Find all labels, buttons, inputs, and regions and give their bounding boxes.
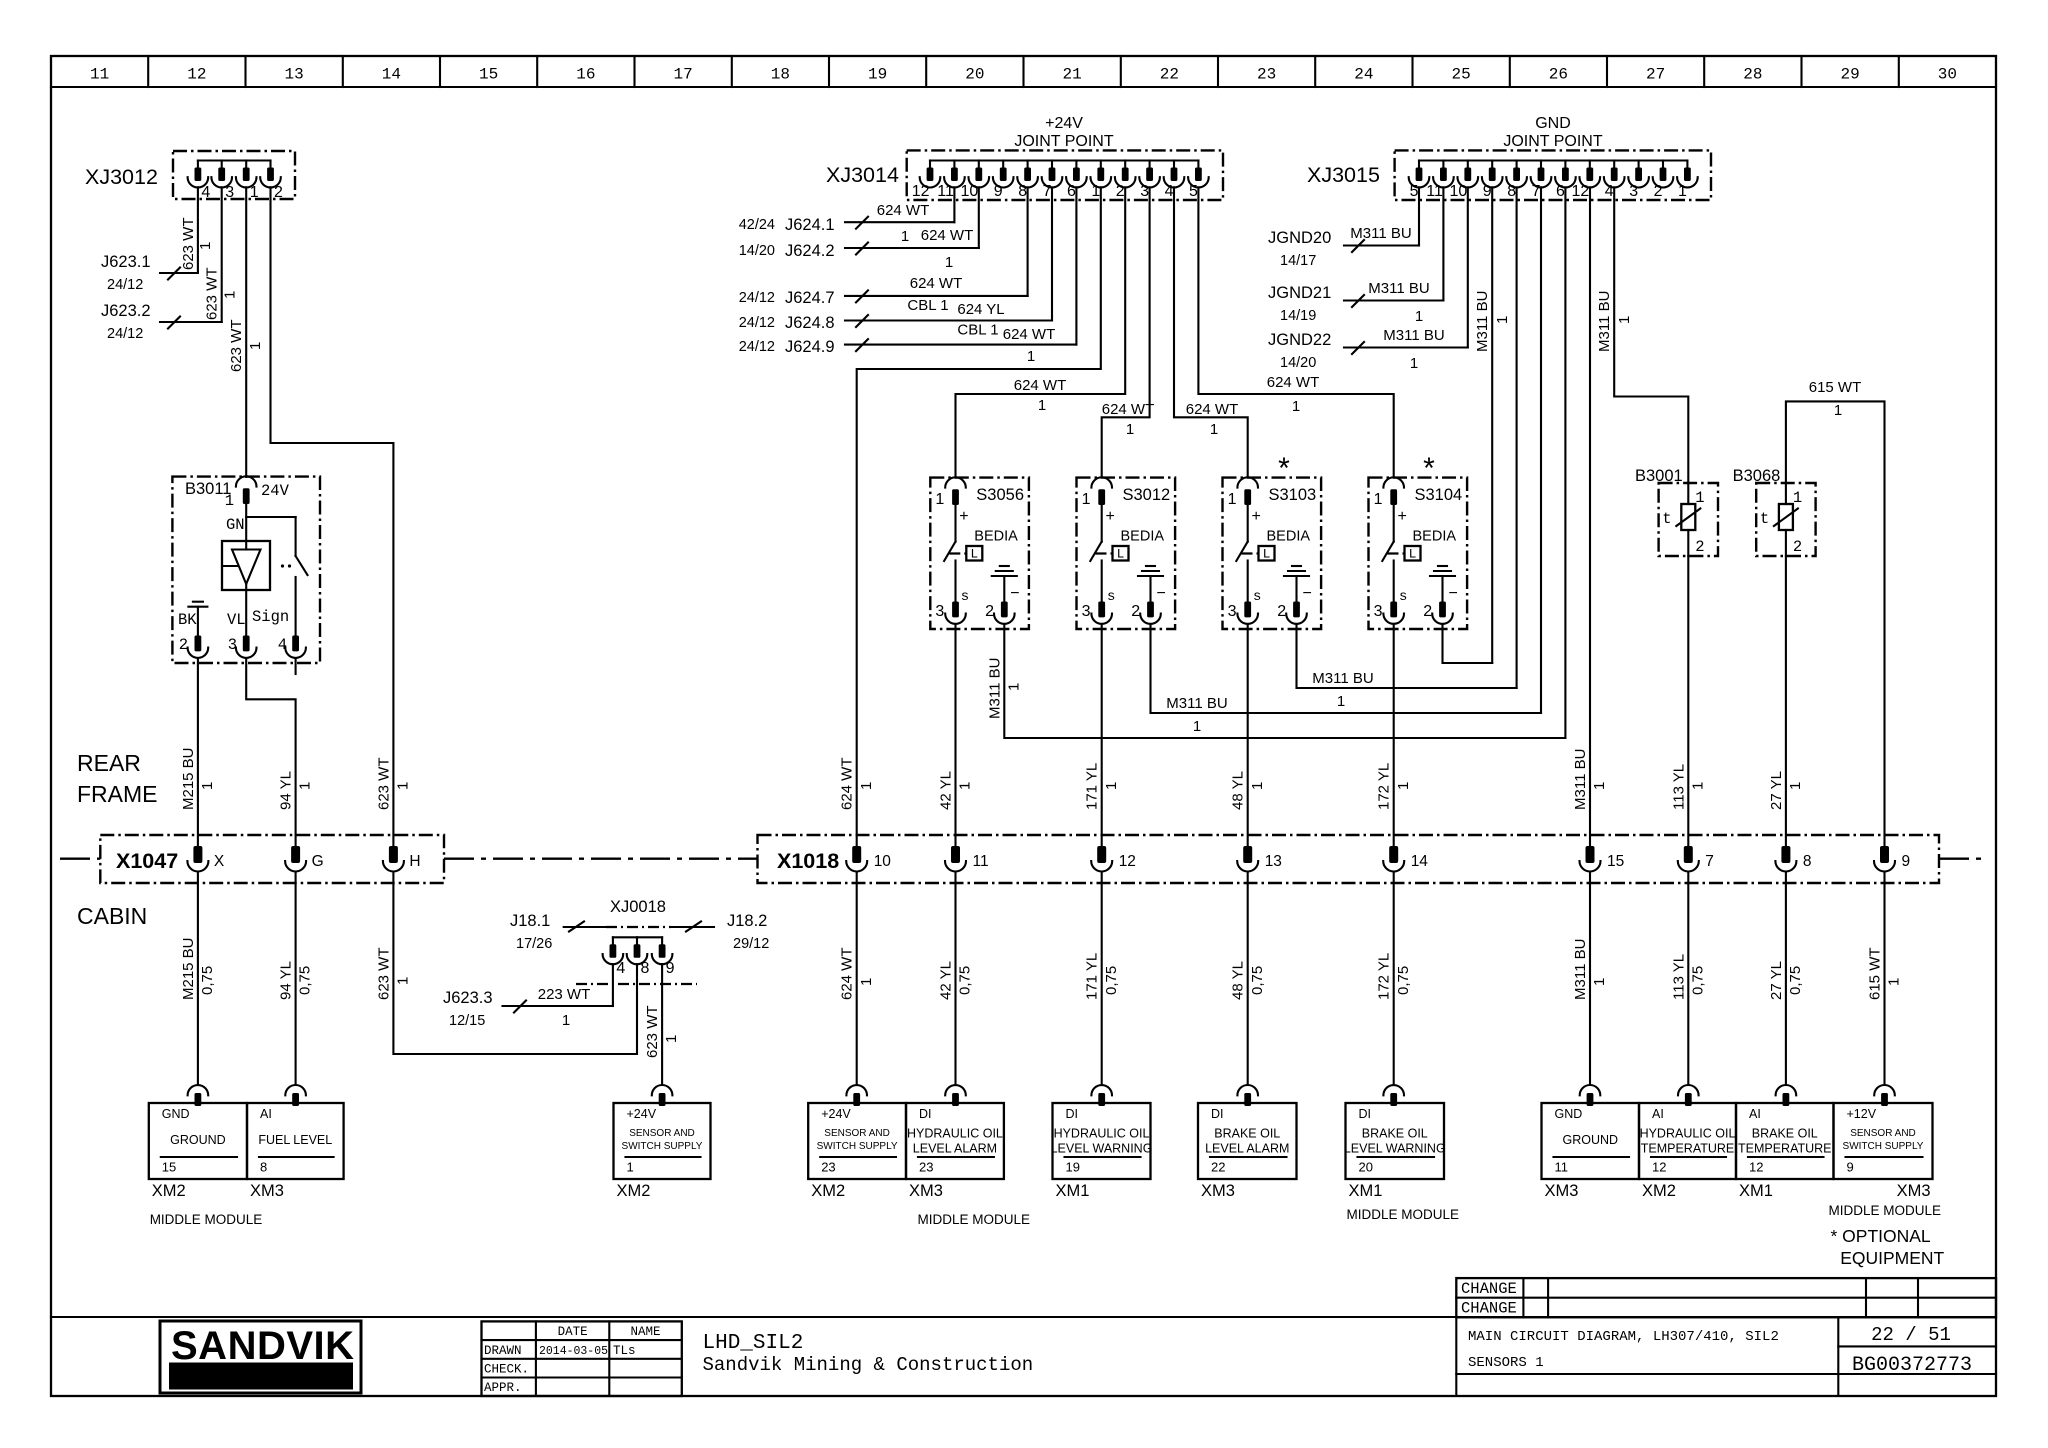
- svg-text:17: 17: [673, 66, 692, 84]
- wire M215 BU from B3011 pin 2 to X1047 pin X: [180, 659, 216, 846]
- wire M311 BU from XJ3015 pin 4 to B3001 pin 1: [1596, 187, 1688, 483]
- svg-text:14: 14: [1411, 853, 1429, 870]
- svg-text:3: 3: [1374, 603, 1383, 620]
- module output +12V SENSOR AND SWITCH SUPPLY 9 XM3: [1834, 1085, 1933, 1200]
- svg-text:L: L: [1263, 547, 1271, 562]
- svg-text:14/17: 14/17: [1280, 253, 1316, 269]
- svg-text:S3103: S3103: [1269, 486, 1317, 504]
- svg-text:SANDVIK: SANDVIK: [171, 1324, 355, 1368]
- svg-text:113 YL: 113 YL: [1670, 764, 1687, 810]
- svg-text:9: 9: [666, 960, 675, 977]
- document number BG00372773: [1852, 1354, 1972, 1377]
- wire 623 WT from XJ3012 pin 2 to X1047 pin H: [271, 187, 394, 846]
- svg-text:1: 1: [1374, 491, 1383, 508]
- svg-text:M311 BU: M311 BU: [1474, 291, 1491, 352]
- svg-text:0,75: 0,75: [1103, 966, 1120, 995]
- svg-text:X: X: [214, 853, 225, 870]
- svg-text:1: 1: [1210, 421, 1218, 438]
- svg-text:SWITCH SUPPLY: SWITCH SUPPLY: [817, 1141, 898, 1152]
- temperature sensor B3068 brake oil: [1733, 467, 1816, 556]
- svg-text:8: 8: [641, 960, 650, 977]
- svg-text:15: 15: [479, 66, 498, 84]
- svg-text:+: +: [959, 508, 968, 525]
- svg-text:LHD_SIL2: LHD_SIL2: [703, 1332, 804, 1355]
- svg-text:23: 23: [1257, 66, 1276, 84]
- svg-text:15: 15: [162, 1160, 176, 1175]
- label J18.1 17/26: [510, 912, 552, 952]
- svg-text:9: 9: [994, 183, 1003, 200]
- svg-text:s: s: [1253, 589, 1261, 605]
- svg-text:GND: GND: [162, 1107, 190, 1121]
- svg-text:−: −: [1303, 585, 1312, 602]
- svg-text:22 / 51: 22 / 51: [1871, 1324, 1951, 1346]
- svg-text:HYDRAULIC OIL: HYDRAULIC OIL: [1640, 1127, 1736, 1141]
- svg-text:21: 21: [1062, 66, 1081, 84]
- svg-text:624 YL: 624 YL: [957, 301, 1004, 318]
- svg-text:3: 3: [1228, 603, 1237, 620]
- wire M215 BU from X1047 pin X to XM2 ground: [180, 872, 216, 1085]
- svg-text:M311 BU: M311 BU: [1166, 695, 1227, 712]
- svg-text:1: 1: [858, 782, 875, 790]
- svg-text:23: 23: [821, 1160, 835, 1175]
- svg-text:M311 BU: M311 BU: [1383, 327, 1444, 344]
- svg-text:623 WT: 623 WT: [180, 217, 197, 270]
- svg-text:1: 1: [901, 228, 909, 245]
- svg-text:624 WT: 624 WT: [1267, 374, 1320, 391]
- svg-text:1: 1: [1228, 491, 1237, 508]
- svg-text:s: s: [961, 589, 969, 605]
- label MIDDLE MODULE far right: [1829, 1203, 1942, 1218]
- svg-text:0,75: 0,75: [1395, 966, 1412, 995]
- svg-text:BG00372773: BG00372773: [1852, 1354, 1972, 1377]
- svg-text:28: 28: [1743, 66, 1762, 84]
- svg-text:XJ3012: XJ3012: [85, 165, 158, 189]
- svg-text:2: 2: [985, 603, 994, 620]
- wire M311 BU from XJ3015 pin 9 to S3104 pin 2: [1474, 187, 1511, 663]
- svg-text:9: 9: [1902, 853, 1911, 870]
- svg-text:94 YL: 94 YL: [278, 771, 295, 810]
- svg-text:BRAKE OIL: BRAKE OIL: [1752, 1127, 1818, 1141]
- svg-text:G: G: [312, 853, 324, 870]
- B3011 case ground symbol: [188, 602, 207, 637]
- svg-text:H: H: [409, 853, 420, 870]
- svg-text:20: 20: [965, 66, 984, 84]
- svg-text:0,75: 0,75: [297, 966, 314, 995]
- svg-text:GROUND: GROUND: [170, 1133, 226, 1147]
- svg-text:1: 1: [222, 291, 239, 299]
- svg-text:29/12: 29/12: [733, 936, 769, 952]
- label MIDDLE MODULE center: [918, 1212, 1031, 1227]
- svg-text:172 YL: 172 YL: [1376, 953, 1393, 1000]
- B3011 float switch: [246, 517, 307, 636]
- svg-text:13: 13: [1265, 853, 1282, 870]
- svg-text:42 YL: 42 YL: [938, 961, 955, 1000]
- svg-text:CBL 1: CBL 1: [957, 322, 998, 339]
- svg-text:3: 3: [1140, 183, 1149, 200]
- svg-text:48 YL: 48 YL: [1230, 961, 1247, 1000]
- svg-text:12: 12: [187, 66, 206, 84]
- svg-text:12/15: 12/15: [449, 1013, 485, 1029]
- svg-text:1: 1: [1249, 782, 1266, 790]
- svg-text:1: 1: [1193, 718, 1201, 735]
- svg-text:M215 BU: M215 BU: [180, 937, 197, 1000]
- svg-text:8: 8: [1507, 183, 1516, 200]
- svg-text:DATE: DATE: [558, 1325, 588, 1339]
- svg-text:24/12: 24/12: [739, 290, 775, 306]
- svg-text:615 WT: 615 WT: [1867, 947, 1884, 1000]
- svg-text:5: 5: [1410, 183, 1419, 200]
- column ruler 11-30: [90, 56, 1957, 87]
- svg-text:10: 10: [1450, 183, 1468, 200]
- svg-text:42/24: 42/24: [739, 217, 775, 233]
- svg-text:MIDDLE MODULE: MIDDLE MODULE: [918, 1212, 1031, 1227]
- svg-text:30: 30: [1938, 66, 1957, 84]
- svg-text:4: 4: [278, 636, 287, 654]
- wire XJ3014 pin 11 to J624.1: [953, 187, 955, 222]
- svg-text:J624.1: J624.1: [785, 216, 835, 234]
- svg-text:+24V: +24V: [821, 1107, 851, 1121]
- svg-text:1: 1: [1126, 421, 1134, 438]
- svg-text:1: 1: [935, 491, 944, 508]
- svg-text:X1018: X1018: [777, 849, 839, 873]
- svg-text:1: 1: [199, 782, 216, 790]
- svg-text:27: 27: [1646, 66, 1665, 84]
- svg-text:10: 10: [961, 183, 979, 200]
- wire 623 WT from J623.2 to XJ3012 pin 3: [204, 187, 239, 322]
- svg-text:19: 19: [1066, 1160, 1080, 1175]
- wire 623 WT from J623.1 to XJ3012 pin 4: [180, 187, 214, 273]
- svg-text:5: 5: [1189, 183, 1198, 200]
- signal entry J624.7 24/12: [739, 275, 1028, 314]
- svg-text:6: 6: [1067, 183, 1076, 200]
- wire M311 BU from X1018 pin 15 to XM3 ground: [1572, 872, 1608, 1085]
- svg-text:14/19: 14/19: [1280, 308, 1316, 324]
- svg-text:2: 2: [1423, 603, 1432, 620]
- approval table: [482, 1321, 682, 1396]
- svg-text:J18.1: J18.1: [510, 912, 550, 930]
- svg-text:11: 11: [1555, 1160, 1569, 1175]
- svg-text:REAR: REAR: [77, 750, 141, 776]
- svg-text:2: 2: [1277, 603, 1286, 620]
- svg-text:1: 1: [663, 1035, 680, 1043]
- svg-text:GN: GN: [226, 516, 245, 534]
- svg-text:12: 12: [1749, 1160, 1763, 1175]
- svg-text:XM3: XM3: [909, 1182, 943, 1200]
- svg-text:1: 1: [1793, 489, 1802, 507]
- svg-text:0,75: 0,75: [199, 966, 216, 995]
- wire M311 BU from XJ3015 pin 6 to S3056 pin 2: [1564, 187, 1566, 738]
- signal entry JGND20 14/17: [1268, 225, 1419, 269]
- svg-text:APPR.: APPR.: [484, 1381, 522, 1395]
- svg-text:1: 1: [1027, 348, 1035, 365]
- svg-text:1: 1: [1787, 782, 1804, 790]
- svg-text:1: 1: [1082, 491, 1091, 508]
- temperature sensor B3001 hydraulic oil: [1635, 467, 1718, 556]
- svg-text:LEVEL ALARM: LEVEL ALARM: [913, 1142, 997, 1156]
- svg-text:DI: DI: [1359, 1107, 1372, 1121]
- svg-text:FRAME: FRAME: [77, 781, 158, 807]
- wire 171 YL from S3012 pin 3 to X1018 pin 12: [1084, 624, 1120, 846]
- svg-text:DI: DI: [1211, 1107, 1224, 1121]
- svg-text:3: 3: [1082, 603, 1091, 620]
- svg-text:DRAWN: DRAWN: [484, 1344, 522, 1358]
- svg-text:L: L: [970, 547, 978, 562]
- svg-text:624 WT: 624 WT: [1014, 377, 1067, 394]
- svg-text:SENSOR AND: SENSOR AND: [824, 1128, 890, 1139]
- svg-text:24/12: 24/12: [739, 339, 775, 355]
- svg-text:19: 19: [868, 66, 887, 84]
- svg-text:1: 1: [1038, 397, 1046, 414]
- svg-text:22: 22: [1160, 66, 1179, 84]
- signal entry JGND21 14/19: [1268, 280, 1443, 325]
- wire M311 BU from XJ3015 pin 12 to X1018 pin 15: [1572, 187, 1608, 846]
- wire M311 BU from S3012 pin 2 to XJ3015 pin 7: [1151, 624, 1542, 735]
- svg-text:624 WT: 624 WT: [1186, 401, 1239, 418]
- svg-text:10: 10: [874, 853, 892, 870]
- wire 48 YL from S3103 pin 3 to X1018 pin 13: [1230, 624, 1266, 846]
- svg-text:0,75: 0,75: [1787, 966, 1804, 995]
- svg-text:4: 4: [1165, 183, 1174, 200]
- signal entry J623.3 12/15: [443, 986, 613, 1029]
- wire 615 WT from B3068 pin 1 to X1018 pin 9: [1786, 379, 1885, 846]
- svg-text:J624.7: J624.7: [785, 289, 835, 307]
- svg-text:24/12: 24/12: [739, 315, 775, 331]
- svg-text:24/12: 24/12: [107, 326, 143, 342]
- wire 27 YL from X1018 pin 8 to XM1 temperature: [1768, 872, 1804, 1085]
- module output +24V SENSOR AND SWITCH SUPPLY 1 XM2: [614, 1085, 711, 1200]
- svg-text:S3012: S3012: [1123, 486, 1171, 504]
- signal entry JGND22 14/20: [1268, 327, 1468, 372]
- svg-text:XJ3015: XJ3015: [1307, 163, 1380, 187]
- svg-text:SENSOR AND: SENSOR AND: [1850, 1128, 1916, 1139]
- wire 624 WT from XJ3014 pin 2 to S3056 pin 1: [956, 187, 1126, 477]
- svg-text:624 WT: 624 WT: [1003, 326, 1056, 343]
- svg-text:615 WT: 615 WT: [1809, 379, 1862, 396]
- wire XJ3015 pin 11 to JGND21: [1442, 187, 1444, 300]
- svg-text:24: 24: [1354, 66, 1373, 84]
- svg-text:1: 1: [1689, 782, 1706, 790]
- note OPTIONAL EQUIPMENT: [1831, 1226, 1945, 1268]
- svg-text:M311 BU: M311 BU: [986, 658, 1003, 719]
- svg-text:*: *: [1423, 452, 1435, 485]
- svg-text:29: 29: [1840, 66, 1859, 84]
- svg-text:−: −: [1157, 585, 1166, 602]
- svg-text:223 WT: 223 WT: [538, 986, 591, 1003]
- svg-text:CHECK.: CHECK.: [484, 1363, 529, 1377]
- wire 42 YL from S3056 pin 3 to X1018 pin 11: [938, 624, 974, 846]
- wire 624 WT from X1018 pin 10 to XM2 supply: [839, 872, 875, 1085]
- wire 48 YL from X1018 pin 13 to XM3 level alarm: [1230, 872, 1266, 1085]
- sheet number 22 / 51: [1871, 1324, 1951, 1346]
- wire M311 BU from XJ3015 pin 8 to S3103 pin 2: [1516, 187, 1518, 688]
- svg-text:+12V: +12V: [1847, 1107, 1877, 1121]
- module input DI HYDRAULIC OIL LEVEL ALARM 23 XM3: [906, 1085, 1004, 1200]
- svg-text:s: s: [1107, 589, 1115, 605]
- svg-text:1: 1: [1395, 782, 1412, 790]
- signal entry J624.8 24/12: [739, 301, 1052, 339]
- module input AI FUEL LEVEL 8 XM3: [247, 1085, 344, 1200]
- svg-text:624 WT: 624 WT: [1102, 401, 1155, 418]
- svg-text:s: s: [1399, 589, 1407, 605]
- signal entry J624.2 14/20: [739, 227, 979, 271]
- svg-text:+24V: +24V: [1045, 115, 1083, 132]
- svg-text:NAME: NAME: [630, 1325, 660, 1339]
- svg-text:11: 11: [1426, 183, 1443, 200]
- svg-text:+24V: +24V: [627, 1107, 657, 1121]
- svg-text:DI: DI: [919, 1107, 932, 1121]
- svg-text:14: 14: [382, 66, 401, 84]
- connector XJ3015 GND joint point: [1307, 115, 1711, 200]
- svg-text:1: 1: [1886, 978, 1903, 986]
- svg-text:7: 7: [1705, 853, 1714, 870]
- svg-text:11: 11: [973, 853, 989, 870]
- svg-text:623 WT: 623 WT: [644, 1005, 661, 1058]
- wire XJ3015 pin 10 to JGND22: [1467, 187, 1469, 347]
- wire XJ3014 pin 7 to J624.8: [1051, 187, 1053, 320]
- svg-text:CABIN: CABIN: [77, 903, 147, 929]
- svg-text:LEVEL ALARM: LEVEL ALARM: [1205, 1142, 1289, 1156]
- svg-text:624 WT: 624 WT: [910, 275, 963, 292]
- svg-text:18: 18: [771, 66, 790, 84]
- svg-text:EQUIPMENT: EQUIPMENT: [1840, 1248, 1944, 1268]
- wire 113 YL from B3001 pin 2 to X1018 pin 7: [1670, 556, 1706, 846]
- connector X1018: [758, 835, 1940, 883]
- wire 171 YL from X1018 pin 12 to XM1 level warning: [1084, 872, 1120, 1085]
- svg-text:12: 12: [912, 183, 930, 200]
- svg-text:+: +: [1106, 508, 1115, 525]
- svg-text:0,75: 0,75: [1689, 966, 1706, 995]
- svg-text:48 YL: 48 YL: [1230, 771, 1247, 810]
- svg-text:XM1: XM1: [1739, 1182, 1773, 1200]
- svg-text:AI: AI: [260, 1107, 272, 1121]
- svg-text:26: 26: [1549, 66, 1568, 84]
- wire 42 YL from X1018 pin 11 to XM3 level alarm: [938, 872, 974, 1085]
- svg-text:XM2: XM2: [617, 1182, 651, 1200]
- B3011 bottom pins 2 3 4: [178, 608, 306, 658]
- svg-text:4: 4: [616, 960, 625, 977]
- optional marker for S3103: [1278, 452, 1290, 485]
- svg-text:BEDIA: BEDIA: [974, 529, 1018, 545]
- svg-text:LEVEL WARNING: LEVEL WARNING: [1344, 1142, 1446, 1156]
- svg-text:8: 8: [1803, 853, 1812, 870]
- wire 172 YL from X1018 pin 14 to XM1 level warning: [1376, 872, 1412, 1085]
- drawing title MAIN CIRCUIT DIAGRAM: [1468, 1329, 1779, 1371]
- title block frame: [51, 1278, 1996, 1396]
- svg-text:L: L: [1117, 547, 1125, 562]
- label MIDDLE MODULE right-center: [1347, 1207, 1460, 1222]
- svg-text:AI: AI: [1652, 1107, 1664, 1121]
- svg-text:25: 25: [1451, 66, 1470, 84]
- svg-text:XJ3014: XJ3014: [826, 163, 899, 187]
- svg-text:1: 1: [1678, 183, 1687, 200]
- svg-text:1: 1: [1834, 402, 1842, 419]
- svg-text:171 YL: 171 YL: [1084, 953, 1101, 1000]
- svg-text:J623.3: J623.3: [443, 989, 493, 1007]
- svg-text:M311 BU: M311 BU: [1312, 670, 1373, 687]
- connector XJ3012: [85, 151, 295, 201]
- svg-text:XM2: XM2: [152, 1182, 186, 1200]
- svg-text:2: 2: [1654, 183, 1663, 200]
- wire XJ3014 pin 8 to J624.7: [1027, 187, 1029, 296]
- svg-text:M215 BU: M215 BU: [180, 747, 197, 810]
- svg-text:J624.9: J624.9: [785, 338, 835, 356]
- svg-text:4: 4: [1605, 183, 1614, 200]
- svg-text:J623.2: J623.2: [101, 302, 151, 320]
- svg-text:−: −: [1010, 585, 1019, 602]
- svg-text:16: 16: [576, 66, 595, 84]
- svg-text:0,75: 0,75: [1249, 966, 1266, 995]
- label MIDDLE MODULE left: [150, 1212, 263, 1227]
- svg-text:3: 3: [228, 636, 237, 654]
- wire XJ3014 pin 6 to J624.9: [1075, 187, 1077, 344]
- svg-text:8: 8: [1018, 183, 1027, 200]
- svg-text:11: 11: [937, 183, 954, 200]
- svg-text:t: t: [1760, 510, 1769, 528]
- svg-text:XM2: XM2: [811, 1182, 845, 1200]
- svg-text:M311 BU: M311 BU: [1572, 939, 1589, 1000]
- module output +24V SENSOR AND SWITCH SUPPLY 23 XM2: [808, 1085, 906, 1200]
- svg-text:14/20: 14/20: [739, 243, 775, 259]
- svg-text:1: 1: [1410, 355, 1418, 372]
- frame-cabin dash-dot boundary line: [60, 858, 1988, 860]
- svg-text:1: 1: [858, 978, 875, 986]
- svg-text:2: 2: [1116, 183, 1125, 200]
- svg-text:1: 1: [1103, 782, 1120, 790]
- svg-text:XM2: XM2: [1642, 1182, 1676, 1200]
- svg-text:GND: GND: [1555, 1107, 1583, 1121]
- svg-text:DI: DI: [1066, 1107, 1079, 1121]
- svg-text:1: 1: [1494, 316, 1511, 324]
- svg-text:3: 3: [225, 184, 234, 201]
- svg-text:171 YL: 171 YL: [1084, 763, 1101, 810]
- svg-text:1: 1: [1591, 782, 1608, 790]
- svg-text:t: t: [1662, 510, 1671, 528]
- svg-text:15: 15: [1607, 853, 1624, 870]
- module input DI BRAKE OIL LEVEL WARNING 20 XM1: [1344, 1085, 1446, 1200]
- svg-text:S3104: S3104: [1415, 486, 1463, 504]
- wire M311 BU from XJ3015 pin 7 to S3012 pin 2: [1540, 187, 1542, 713]
- wire 623 WT from XJ3012 pin 1 to B3011 pin 1: [228, 187, 264, 477]
- wire 623 WT from XJ0018 pin 9 to XM2 supply: [644, 964, 680, 1085]
- svg-text:* OPTIONAL: * OPTIONAL: [1831, 1226, 1931, 1246]
- svg-text:MAIN CIRCUIT DIAGRAM, LH307/41: MAIN CIRCUIT DIAGRAM, LH307/410, SIL2: [1468, 1329, 1779, 1345]
- connector XJ0018: [564, 898, 714, 984]
- svg-text:7: 7: [1532, 183, 1541, 200]
- svg-text:X1047: X1047: [116, 849, 178, 873]
- svg-text:1: 1: [297, 782, 314, 790]
- wire 223 WT to XJ0018 pin 4: [612, 964, 614, 1006]
- svg-text:AI: AI: [1749, 1107, 1761, 1121]
- svg-text:24/12: 24/12: [107, 277, 143, 293]
- svg-text:9: 9: [1847, 1160, 1854, 1175]
- change rows: [1461, 1280, 1517, 1318]
- svg-text:6: 6: [1556, 183, 1565, 200]
- svg-text:1: 1: [225, 492, 234, 510]
- svg-text:JOINT POINT: JOINT POINT: [1014, 133, 1113, 150]
- wire 624 WT from XJ3014 pin 4 to S3103 pin 1: [1174, 187, 1248, 477]
- svg-text:BEDIA: BEDIA: [1121, 529, 1165, 545]
- svg-text:*: *: [1278, 452, 1290, 485]
- svg-text:LEVEL WARNING: LEVEL WARNING: [1051, 1142, 1153, 1156]
- wire stub from B3011 pin 4: [295, 659, 297, 674]
- sensor S3104 brake oil level switch: [1369, 477, 1468, 629]
- svg-text:1: 1: [957, 782, 974, 790]
- svg-text:BEDIA: BEDIA: [1267, 529, 1311, 545]
- svg-text:9: 9: [1483, 183, 1492, 200]
- wire 624 WT from XJ3014 pin 5 to S3104 pin 1: [1198, 187, 1393, 477]
- svg-text:VL: VL: [227, 611, 246, 629]
- svg-text:Sandvik Mining & Construction: Sandvik Mining & Construction: [703, 1354, 1034, 1376]
